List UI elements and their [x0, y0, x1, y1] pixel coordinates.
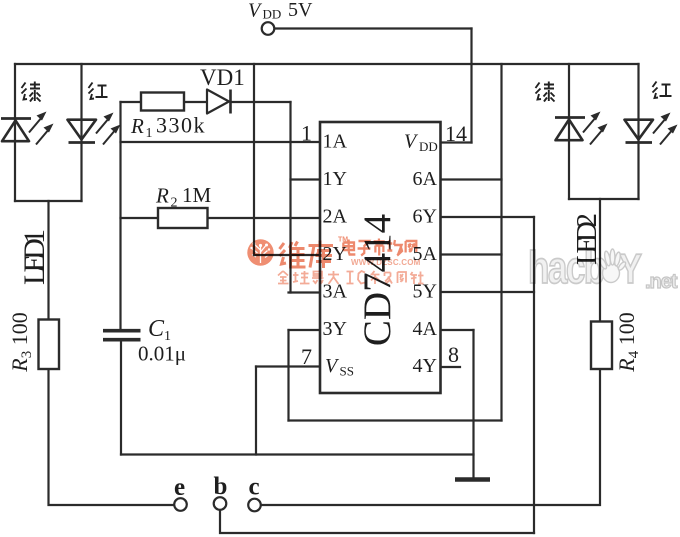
resistor R2 — [155, 183, 212, 228]
diode VD1 — [200, 65, 245, 114]
wire right box left side — [568, 64, 570, 199]
wire pin 4A — [441, 329, 474, 331]
wire VDD feed vertical to pin 14 — [470, 29, 472, 143]
wire pin 3Y — [289, 329, 321, 331]
svg-text:2: 2 — [171, 196, 178, 211]
wire pin 3A — [289, 291, 321, 293]
wire pin 1A — [121, 141, 321, 143]
svg-text:8: 8 — [448, 342, 459, 367]
resistor R1 — [130, 93, 206, 142]
terminal c — [248, 474, 261, 512]
wire input node vertical — [119, 102, 121, 329]
capacitor C1 — [103, 316, 186, 366]
svg-text:R3 100: R3 100 — [7, 312, 35, 372]
power terminal VDD — [248, 0, 313, 35]
wire right box right side — [637, 64, 639, 199]
LED1 red diode — [68, 113, 121, 145]
wire 3Y to 5A/6A horizontal — [289, 419, 502, 421]
svg-text:.net: .net — [645, 271, 678, 293]
wire LED2 to R4 — [599, 199, 601, 322]
wire pin 5Y — [441, 291, 535, 293]
terminal e — [174, 474, 187, 511]
svg-text:4A: 4A — [413, 318, 438, 340]
label LED1 — [18, 229, 51, 285]
svg-text:0.01μ: 0.01μ — [138, 342, 186, 366]
svg-text:1: 1 — [146, 126, 153, 141]
svg-text:SS: SS — [340, 364, 354, 379]
svg-text:1: 1 — [301, 121, 312, 146]
wire pin 2Y — [254, 254, 320, 256]
watermark logo circle — [247, 239, 273, 265]
svg-text:1M: 1M — [182, 183, 212, 207]
svg-text:R: R — [130, 114, 144, 138]
wire left box bottom — [15, 200, 82, 202]
svg-text:CD7414: CD7414 — [356, 214, 399, 346]
label LED2 — [571, 213, 603, 265]
wire LED1 to R3 — [47, 201, 49, 320]
wire VD1 cathode — [231, 101, 291, 103]
svg-text:1Y: 1Y — [323, 168, 347, 190]
wire rail to 6A/5A vertical — [500, 64, 502, 421]
wire pin 5A — [441, 253, 502, 255]
wire R1 to VD1 — [184, 101, 207, 103]
terminal b — [214, 473, 228, 510]
wire 4A to ground vertical — [472, 330, 474, 478]
IC U1 CD7414 body — [320, 122, 441, 393]
wire ground rail horizontal — [121, 453, 474, 455]
watermark slogan 全球最大IC采购网站 — [278, 271, 424, 284]
wire VDD feed horizontal — [275, 27, 472, 29]
svg-text:7: 7 — [301, 344, 312, 369]
wire terminal b down and right — [220, 510, 534, 533]
svg-text:3A: 3A — [323, 281, 348, 303]
label red (right) — [653, 82, 672, 99]
svg-text:hacb: hacb — [528, 242, 604, 293]
svg-text:e: e — [174, 474, 185, 501]
svg-text:14: 14 — [445, 121, 467, 146]
wire VD1/1Y/3A vertical — [289, 102, 291, 293]
wire top rail — [15, 63, 639, 65]
wire 3Y down vertical — [287, 330, 289, 421]
label red (left) — [89, 83, 108, 100]
LED2 green diode — [555, 112, 608, 145]
svg-text:V: V — [248, 0, 263, 22]
svg-text:6A: 6A — [413, 168, 438, 190]
wire pin 1Y — [291, 178, 321, 180]
LED1 green diode — [1, 112, 54, 145]
wire right box bottom — [569, 198, 639, 200]
wire C1 bottom to ground rail — [120, 342, 122, 455]
watermark hacbuy.net (gray) — [528, 242, 678, 293]
wire pin 6Y — [441, 216, 535, 218]
wire left box right side — [80, 64, 82, 201]
svg-text:WWW.DZSC.COM: WWW.DZSC.COM — [351, 258, 421, 267]
wire 6Y/5Y down vertical — [533, 217, 535, 533]
svg-text:b: b — [214, 473, 228, 500]
wire left box left side — [14, 64, 16, 201]
wire rail to 2Y vertical — [253, 64, 255, 255]
svg-text:R4 100: R4 100 — [614, 312, 642, 372]
wire pin VSS — [256, 365, 320, 367]
wire R4 to terminal c — [261, 369, 600, 505]
svg-text:2A: 2A — [323, 206, 348, 228]
svg-text:LED1: LED1 — [18, 229, 51, 285]
label green (left) — [22, 82, 41, 102]
WATERMARKS (overlay, multiply blend) — [247, 237, 423, 285]
svg-text:1A: 1A — [323, 131, 348, 153]
wire pin 14 — [441, 141, 472, 143]
svg-text:5V: 5V — [288, 0, 313, 21]
svg-text:DD: DD — [263, 7, 282, 22]
svg-text:3Y: 3Y — [323, 318, 347, 340]
wire R2 to pin 2A — [208, 217, 321, 219]
svg-text:c: c — [249, 474, 260, 501]
watermark text 电子市场网 — [343, 239, 416, 256]
watermark text 维库 — [280, 241, 334, 269]
LED2 red diode — [625, 113, 678, 145]
label green (right) — [536, 82, 555, 102]
resistor R3 — [7, 312, 59, 372]
wire VSS down vertical — [255, 367, 257, 455]
svg-text:6Y: 6Y — [413, 206, 437, 228]
svg-text:VD1: VD1 — [200, 65, 245, 90]
ground — [455, 477, 490, 482]
wire pin 4Y stub — [441, 366, 461, 368]
svg-text:330k: 330k — [156, 113, 206, 138]
svg-text:5Y: 5Y — [413, 281, 437, 303]
wire R2 left — [121, 217, 159, 219]
svg-text:R: R — [155, 184, 169, 208]
wire R3 to terminal e — [49, 369, 175, 505]
wire R1 left — [121, 101, 142, 103]
wire pin 6A — [441, 178, 502, 180]
svg-text:C: C — [148, 316, 165, 342]
resistor R4 — [591, 312, 642, 372]
svg-text:4Y: 4Y — [413, 355, 437, 377]
svg-text:DD: DD — [419, 139, 438, 154]
